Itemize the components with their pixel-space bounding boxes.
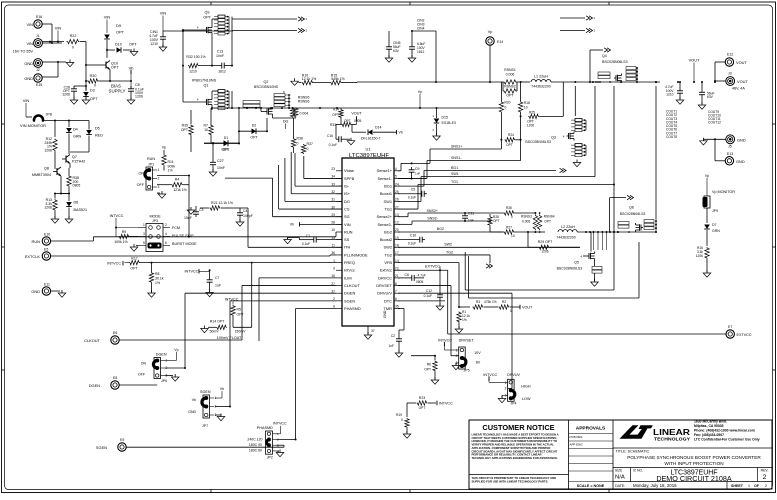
svg-text:Sense1+: Sense1+ xyxy=(376,168,392,173)
svg-text:DRVCC: DRVCC xyxy=(378,275,392,280)
svg-text:TG1: TG1 xyxy=(451,180,458,184)
svg-text:D10: D10 xyxy=(115,43,122,47)
svg-text:1: 1 xyxy=(333,259,335,263)
svg-text:10: 10 xyxy=(204,128,208,132)
svg-text:R11: R11 xyxy=(168,160,174,164)
svg-text:SW2: SW2 xyxy=(444,243,452,247)
svg-text:Vp: Vp xyxy=(418,90,423,94)
svg-text:INTVCC: INTVCC xyxy=(439,402,453,406)
svg-text:0: 0 xyxy=(297,142,299,146)
svg-text:C1: C1 xyxy=(306,234,311,238)
svg-text:MODE: MODE xyxy=(149,215,161,219)
svg-text:JP3: JP3 xyxy=(152,219,158,223)
svg-text:PHASMD: PHASMD xyxy=(344,306,361,311)
svg-text:Boost1: Boost1 xyxy=(380,191,392,196)
svg-text:N/A: N/A xyxy=(615,474,625,480)
svg-text:ILIM: ILIM xyxy=(344,275,352,280)
svg-text:ITH: ITH xyxy=(344,245,350,250)
svg-text:OPT: OPT xyxy=(129,43,137,47)
svg-text:DTC: DTC xyxy=(384,298,392,303)
svg-text:J5: J5 xyxy=(728,145,732,149)
svg-text:D2: D2 xyxy=(252,124,257,128)
svg-text:1: 1 xyxy=(143,223,145,227)
svg-text:VIN: VIN xyxy=(160,11,167,16)
svg-text:D4: D4 xyxy=(73,128,78,132)
svg-text:Q2: Q2 xyxy=(264,80,269,84)
svg-text:36: 36 xyxy=(331,251,335,255)
svg-text:C3: C3 xyxy=(199,208,204,212)
svg-text:18: 18 xyxy=(395,244,399,248)
svg-text:D9: D9 xyxy=(116,23,121,28)
svg-text:E10: E10 xyxy=(44,233,50,237)
svg-text:JP4: JP4 xyxy=(510,401,516,405)
svg-text:E8: E8 xyxy=(113,376,117,380)
svg-text:TG2: TG2 xyxy=(384,252,392,257)
svg-text:INTVCC: INTVCC xyxy=(110,214,124,218)
svg-text:OPT: OPT xyxy=(130,266,138,270)
svg-text:VIN: VIN xyxy=(26,22,33,27)
svg-text:R26: R26 xyxy=(506,206,512,210)
svg-text:48V, 4A: 48V, 4A xyxy=(732,87,745,91)
svg-text:BSC028N06LS3: BSC028N06LS3 xyxy=(525,140,551,144)
svg-text:R23: R23 xyxy=(419,396,425,400)
svg-text:240C 120: 240C 120 xyxy=(247,438,262,442)
svg-text:U1: U1 xyxy=(366,147,371,152)
svg-text:LINEAR: LINEAR xyxy=(653,427,691,437)
svg-text:R34: R34 xyxy=(333,108,339,112)
svg-text:INTVCC: INTVCC xyxy=(185,270,199,274)
svg-text:R5: R5 xyxy=(237,308,242,312)
svg-text:SG: SG xyxy=(344,214,350,219)
svg-text:R22: R22 xyxy=(70,34,77,38)
svg-text:GRN: GRN xyxy=(712,229,720,233)
svg-text:16V TO 55V: 16V TO 55V xyxy=(13,50,34,54)
svg-text:1206: 1206 xyxy=(541,250,548,254)
svg-text:EXTVCC: EXTVCC xyxy=(425,264,440,268)
svg-text:33: 33 xyxy=(331,182,335,186)
svg-text:BAS521: BAS521 xyxy=(74,208,88,212)
svg-text:1206: 1206 xyxy=(44,148,52,152)
svg-text:OPT: OPT xyxy=(116,30,125,35)
svg-text:REV.: REV. xyxy=(761,468,769,472)
svg-text:12: 12 xyxy=(395,221,399,225)
svg-text:INTVCC: INTVCC xyxy=(273,422,287,426)
svg-text:CUSTOMER NOTICE: CUSTOMER NOTICE xyxy=(482,423,554,432)
svg-text:13: 13 xyxy=(395,213,399,217)
svg-text:Vp: Vp xyxy=(162,146,166,150)
svg-text:10nF: 10nF xyxy=(217,166,225,170)
svg-text:DRVU/V: DRVU/V xyxy=(377,291,392,296)
svg-text:25: 25 xyxy=(395,190,399,194)
svg-text:OPT: OPT xyxy=(544,220,551,224)
svg-text:GND: GND xyxy=(383,310,387,318)
svg-text:5: 5 xyxy=(395,175,397,179)
svg-text:10: 10 xyxy=(511,234,515,238)
svg-text:1206: 1206 xyxy=(527,123,534,127)
svg-text:PLLIN/MODE: PLLIN/MODE xyxy=(344,252,368,257)
svg-text:R2: R2 xyxy=(502,300,506,304)
svg-text:BSC028N06LS3: BSC028N06LS3 xyxy=(557,266,583,270)
svg-text:37: 37 xyxy=(371,329,375,333)
svg-text:Vp MONITOR: Vp MONITOR xyxy=(712,190,735,194)
svg-text:R6: R6 xyxy=(427,363,431,367)
svg-text:Vb: Vb xyxy=(290,223,294,227)
svg-text:LOW: LOW xyxy=(522,397,531,401)
svg-text:1812: 1812 xyxy=(218,70,226,74)
svg-text:17: 17 xyxy=(395,251,399,255)
svg-text:10V: 10V xyxy=(474,351,481,355)
svg-text:7: 7 xyxy=(395,289,397,293)
svg-text:SGEN: SGEN xyxy=(200,390,211,394)
svg-text:SCALE = NONE: SCALE = NONE xyxy=(577,484,605,488)
svg-text:DG: DG xyxy=(344,199,350,204)
svg-text:INTVCC: INTVCC xyxy=(438,339,452,343)
svg-text:Phone: (408)432-1900 www.lin: Phone: (408)432-1900 www.linear.com xyxy=(694,429,755,433)
svg-text:63V: 63V xyxy=(707,95,714,99)
svg-text:JP6: JP6 xyxy=(161,379,167,383)
svg-text:E6: E6 xyxy=(113,331,117,335)
svg-text:12.1k 1%: 12.1k 1% xyxy=(302,77,317,81)
svg-text:Sense2-: Sense2- xyxy=(377,222,392,227)
svg-text:C2: C2 xyxy=(391,334,395,338)
svg-text:Q6: Q6 xyxy=(629,206,634,210)
svg-text:10nF: 10nF xyxy=(216,54,224,58)
svg-text:DATE:: DATE: xyxy=(615,484,625,488)
svg-text:TMR: TMR xyxy=(384,306,393,311)
svg-text:C13: C13 xyxy=(217,50,223,54)
svg-text:D1: D1 xyxy=(224,136,229,140)
svg-text:SUPPLIED FOR USE WITH LINEAR T: SUPPLIED FOR USE WITH LINEAR TECHNOLOGY … xyxy=(472,479,549,483)
svg-text:4: 4 xyxy=(165,232,167,236)
svg-text:C10: C10 xyxy=(410,234,416,238)
svg-text:34: 34 xyxy=(331,175,335,179)
svg-text:15nF: 15nF xyxy=(184,216,192,220)
svg-text:BSC035N10NS: BSC035N10NS xyxy=(254,85,279,89)
svg-text:J2: J2 xyxy=(36,68,40,72)
svg-text:R4: R4 xyxy=(175,178,180,182)
svg-text:0.006: 0.006 xyxy=(506,73,515,77)
svg-text:Sense1-: Sense1- xyxy=(377,176,392,181)
svg-text:Milpitas, CA 95035: Milpitas, CA 95035 xyxy=(694,424,724,428)
svg-text:24: 24 xyxy=(395,182,399,186)
svg-text:EXTCLK: EXTCLK xyxy=(25,254,41,259)
svg-text:3: 3 xyxy=(277,443,279,447)
svg-text:RUN: RUN xyxy=(344,229,353,234)
svg-text:WITH INPUT PROTECTION: WITH INPUT PROTECTION xyxy=(664,461,723,466)
svg-text:OPT: OPT xyxy=(181,128,189,132)
svg-text:CLKOUT: CLKOUT xyxy=(344,283,360,288)
svg-text:OPT: OPT xyxy=(250,136,258,140)
svg-text:0: 0 xyxy=(511,215,513,219)
svg-text:Vb: Vb xyxy=(129,66,135,71)
svg-text:VFB: VFB xyxy=(384,260,392,265)
svg-text:FREQ: FREQ xyxy=(344,260,355,265)
svg-text:OPT: OPT xyxy=(424,368,431,372)
svg-text:Vp: Vp xyxy=(488,30,493,34)
svg-text:32: 32 xyxy=(331,190,335,194)
svg-text:E7: E7 xyxy=(728,325,732,329)
svg-text:SW2: SW2 xyxy=(384,245,392,250)
svg-text:BG1: BG1 xyxy=(384,184,392,189)
svg-text:0.006: 0.006 xyxy=(522,220,530,224)
svg-text:150mV: 150mV xyxy=(234,330,246,334)
svg-text:FCM: FCM xyxy=(172,226,180,230)
svg-text:11: 11 xyxy=(332,244,336,248)
svg-text:Q7: Q7 xyxy=(72,155,77,159)
svg-text:E16: E16 xyxy=(36,15,42,19)
svg-text:23: 23 xyxy=(331,167,335,171)
svg-text:Vb: Vb xyxy=(399,131,403,135)
svg-text:C11: C11 xyxy=(468,212,474,216)
svg-text:Q8: Q8 xyxy=(44,167,49,171)
svg-text:D7: D7 xyxy=(712,223,717,227)
svg-text:180C 90: 180C 90 xyxy=(249,443,262,447)
svg-text:R3: R3 xyxy=(476,300,480,304)
svg-text:1: 1 xyxy=(748,484,750,488)
svg-text:0805: 0805 xyxy=(416,280,423,284)
svg-text:LTC3897EUHF: LTC3897EUHF xyxy=(349,153,389,159)
svg-text:RUN: RUN xyxy=(147,157,155,161)
svg-text:10: 10 xyxy=(524,105,528,109)
svg-text:14: 14 xyxy=(395,259,399,263)
svg-text:E13: E13 xyxy=(727,152,733,156)
svg-text:COUT12: COUT12 xyxy=(708,121,721,125)
svg-text:OPT: OPT xyxy=(237,313,245,317)
svg-text:DRVSET: DRVSET xyxy=(376,283,392,288)
svg-text:POLYPHASE SYNCHRONOUS BOOST PO: POLYPHASE SYNCHRONOUS BOOST POWER CONVER… xyxy=(627,455,761,460)
svg-text:50mV: 50mV xyxy=(209,330,219,334)
svg-text:2: 2 xyxy=(763,474,767,481)
svg-text:JP5: JP5 xyxy=(464,368,470,372)
svg-text:C4: C4 xyxy=(243,209,248,213)
svg-text:R37: R37 xyxy=(307,142,313,146)
svg-text:GND: GND xyxy=(31,289,40,294)
svg-text:ON: ON xyxy=(138,172,144,176)
svg-text:VIN MONITOR: VIN MONITOR xyxy=(20,123,46,128)
svg-text:SNS2+: SNS2+ xyxy=(427,209,439,213)
svg-text:GND: GND xyxy=(24,61,33,66)
svg-text:E14: E14 xyxy=(497,40,503,44)
svg-text:COUT8: COUT8 xyxy=(666,135,677,139)
svg-text:BSC028N06LS3: BSC028N06LS3 xyxy=(602,60,628,64)
svg-text:R8: R8 xyxy=(155,272,160,276)
svg-text:DFLS1150-7: DFLS1150-7 xyxy=(361,137,381,141)
svg-text:0: 0 xyxy=(401,418,403,422)
svg-text:R24: R24 xyxy=(508,133,514,137)
svg-text:DGEN: DGEN xyxy=(89,383,100,388)
svg-text:Sense2+: Sense2+ xyxy=(376,214,392,219)
svg-text:7443632200: 7443632200 xyxy=(531,85,550,89)
svg-text:0.004: 0.004 xyxy=(300,112,309,116)
svg-text:R32 100 1%: R32 100 1% xyxy=(186,55,205,59)
svg-text:VOUT: VOUT xyxy=(351,112,362,116)
svg-text:TG1: TG1 xyxy=(384,206,392,211)
svg-text:1630 McCarthy Blvd.: 1630 McCarthy Blvd. xyxy=(694,420,727,424)
svg-text:ES1B-E3: ES1B-E3 xyxy=(442,121,456,125)
svg-text:Q3: Q3 xyxy=(551,136,556,140)
svg-text:R19: R19 xyxy=(396,413,402,417)
svg-text:SPFB: SPFB xyxy=(344,176,355,181)
svg-text:7443632200: 7443632200 xyxy=(556,236,575,240)
svg-text:2: 2 xyxy=(158,177,160,181)
svg-text:CS: CS xyxy=(344,206,350,211)
svg-text:2: 2 xyxy=(333,297,335,301)
svg-text:RSNS6: RSNS6 xyxy=(298,100,310,104)
svg-text:6V: 6V xyxy=(476,361,481,365)
svg-text:Vp: Vp xyxy=(705,174,709,178)
svg-text:10: 10 xyxy=(331,228,335,232)
svg-text:BSC028N06LS3: BSC028N06LS3 xyxy=(620,212,646,216)
svg-text:JP1: JP1 xyxy=(148,163,154,167)
svg-text:3: 3 xyxy=(158,185,160,189)
svg-text:VIN: VIN xyxy=(26,41,33,46)
svg-text:4.7uF: 4.7uF xyxy=(418,274,426,278)
svg-text:SGEN: SGEN xyxy=(344,298,355,303)
svg-text:OFF: OFF xyxy=(137,183,145,187)
svg-text:OPT: OPT xyxy=(111,66,119,70)
svg-text:Vb: Vb xyxy=(192,398,196,402)
svg-text:1210: 1210 xyxy=(189,70,197,74)
svg-text:JP8: JP8 xyxy=(46,113,52,117)
svg-text:MMBT3904: MMBT3904 xyxy=(32,173,51,177)
svg-text:Vb: Vb xyxy=(220,387,224,391)
svg-text:R36: R36 xyxy=(297,137,303,141)
svg-text:R14 OPT: R14 OPT xyxy=(210,320,225,324)
svg-text:E11: E11 xyxy=(44,283,50,287)
svg-text:3: 3 xyxy=(143,232,145,236)
svg-text:OPT: OPT xyxy=(419,406,426,410)
svg-text:1206: 1206 xyxy=(44,206,52,210)
svg-text:100k 1%: 100k 1% xyxy=(114,240,128,244)
svg-text:37: 37 xyxy=(331,289,335,293)
svg-text:Q9: Q9 xyxy=(205,11,210,15)
svg-text:1206: 1206 xyxy=(696,254,703,258)
svg-text:APP ENG.: APP ENG. xyxy=(570,443,584,447)
svg-text:180C 60: 180C 60 xyxy=(249,449,262,453)
svg-text:Q1: Q1 xyxy=(204,84,209,88)
svg-text:TITLE: SCHEMATIC: TITLE: SCHEMATIC xyxy=(616,450,650,454)
svg-text:E5: E5 xyxy=(44,248,48,252)
svg-text:E15: E15 xyxy=(36,83,42,87)
svg-text:C8: C8 xyxy=(135,83,140,87)
svg-text:VIN: VIN xyxy=(104,15,111,20)
svg-text:BG1: BG1 xyxy=(451,166,458,170)
svg-text:IPB017N10NS: IPB017N10NS xyxy=(192,79,217,83)
svg-text:RSNS4: RSNS4 xyxy=(544,215,555,219)
svg-text:1812: 1812 xyxy=(417,50,424,54)
svg-text:Fax: (408)434-0507: Fax: (408)434-0507 xyxy=(694,433,724,437)
svg-text:1%: 1% xyxy=(168,169,173,173)
svg-text:R7: R7 xyxy=(204,124,209,128)
svg-text:0: 0 xyxy=(505,105,507,109)
svg-text:Monday, July 18, 2016: Monday, July 18, 2016 xyxy=(633,483,677,488)
svg-text:OFF: OFF xyxy=(138,373,145,377)
svg-text:R35: R35 xyxy=(182,124,188,128)
svg-text:D15: D15 xyxy=(442,116,448,120)
svg-text:C9: C9 xyxy=(415,167,420,171)
svg-text:HIGH: HIGH xyxy=(521,385,531,389)
svg-text:SS: SS xyxy=(344,237,350,242)
svg-text:C27: C27 xyxy=(217,159,224,163)
svg-text:OPT: OPT xyxy=(506,143,513,147)
svg-text:549k 1%: 549k 1% xyxy=(331,77,345,81)
svg-text:RED: RED xyxy=(95,134,103,138)
svg-text:VOUT: VOUT xyxy=(689,58,700,63)
svg-text:100mV FLOAT: 100mV FLOAT xyxy=(217,336,242,340)
svg-text:BG2: BG2 xyxy=(384,229,392,234)
svg-text:28: 28 xyxy=(331,221,335,225)
svg-text:1: 1 xyxy=(158,168,160,172)
svg-text:E12: E12 xyxy=(727,53,733,57)
svg-text:DGEN: DGEN xyxy=(156,353,167,357)
svg-text:RSNS1: RSNS1 xyxy=(504,68,516,72)
svg-text:D6: D6 xyxy=(74,201,79,205)
svg-text:R9: R9 xyxy=(122,230,127,234)
svg-text:GND: GND xyxy=(24,76,33,81)
svg-text:Q4: Q4 xyxy=(602,54,607,58)
svg-text:2: 2 xyxy=(165,223,167,227)
svg-text:SNS1-: SNS1- xyxy=(451,156,462,160)
svg-text:R33: R33 xyxy=(330,123,336,127)
svg-text:SNS1+: SNS1+ xyxy=(451,145,463,149)
svg-text:R29 OPT: R29 OPT xyxy=(538,240,553,244)
svg-text:IntVcc: IntVcc xyxy=(344,268,355,273)
svg-text:RSNS2: RSNS2 xyxy=(504,85,516,89)
svg-text:GND: GND xyxy=(188,410,196,414)
svg-text:6: 6 xyxy=(395,297,397,301)
svg-text:0.1uF: 0.1uF xyxy=(408,195,416,199)
svg-text:EXTVCC: EXTVCC xyxy=(737,333,752,337)
svg-text:Vbias: Vbias xyxy=(344,168,354,173)
svg-text:VOUT: VOUT xyxy=(736,60,747,65)
svg-text:63V: 63V xyxy=(393,49,400,53)
svg-text:C6: C6 xyxy=(405,273,410,277)
svg-text:0805: 0805 xyxy=(73,184,81,188)
svg-text:R27: R27 xyxy=(506,226,512,230)
svg-text:OPT: OPT xyxy=(222,148,230,152)
svg-text:OPT: OPT xyxy=(506,94,514,98)
svg-text:SW1: SW1 xyxy=(451,172,459,176)
svg-text:C12: C12 xyxy=(426,289,432,293)
svg-text:0.1uF: 0.1uF xyxy=(408,241,416,245)
svg-text:OF: OF xyxy=(754,484,760,488)
svg-text:0805: 0805 xyxy=(354,119,361,123)
svg-text:R30: R30 xyxy=(90,74,97,78)
svg-text:DRVUV: DRVUV xyxy=(507,373,520,377)
svg-text:TECHNOLOGY: TECHNOLOGY xyxy=(654,437,690,442)
svg-text:PULSE SKIP: PULSE SKIP xyxy=(172,234,194,238)
svg-text:PCB DES.: PCB DES. xyxy=(570,435,584,439)
svg-text:30.1k: 30.1k xyxy=(155,277,164,281)
svg-text:OPT: OPT xyxy=(344,119,351,123)
svg-text:ON: ON xyxy=(141,362,147,366)
svg-text:OPT: OPT xyxy=(90,97,98,101)
svg-text:1nF: 1nF xyxy=(468,219,474,223)
svg-text:2: 2 xyxy=(765,484,767,488)
svg-text:D3: D3 xyxy=(90,89,95,93)
svg-text:RUN: RUN xyxy=(32,239,41,244)
svg-text:APPROVALS: APPROVALS xyxy=(576,426,606,432)
svg-text:SHEET: SHEET xyxy=(731,484,744,488)
svg-text:9: 9 xyxy=(333,266,335,270)
svg-text:8: 8 xyxy=(395,282,397,286)
svg-text:C5: C5 xyxy=(411,188,416,192)
svg-text:D5: D5 xyxy=(95,127,100,131)
svg-text:GND: GND xyxy=(737,137,746,142)
svg-text:R21 12.1k 1%: R21 12.1k 1% xyxy=(211,201,233,205)
svg-text:SW1: SW1 xyxy=(384,199,392,204)
svg-text:OPT: OPT xyxy=(332,113,339,117)
